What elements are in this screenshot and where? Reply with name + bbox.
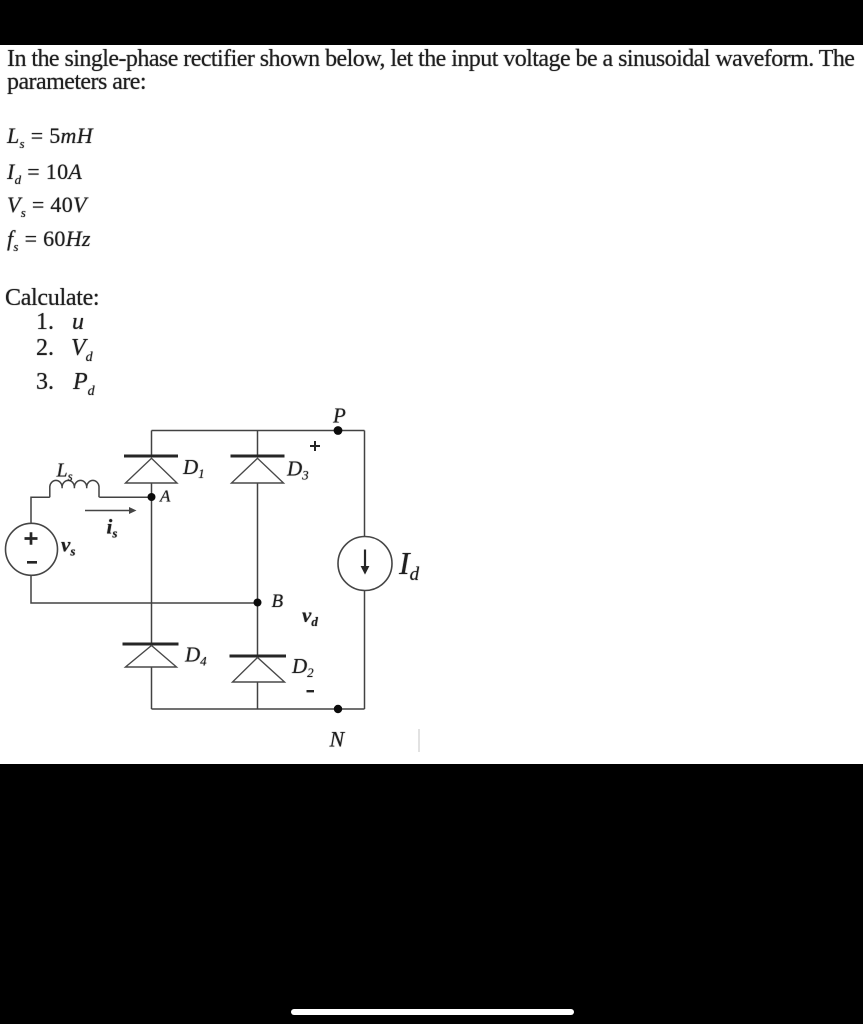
wire left leg: top bus to diode D1 — [151, 431, 153, 456]
home indicator bar — [291, 1009, 574, 1015]
svg-text:P: P — [332, 404, 346, 428]
label vs — [61, 533, 75, 559]
svg-text:D3: D3 — [286, 457, 309, 483]
top status black bar — [0, 0, 863, 45]
bottom letterbox black area — [0, 764, 863, 1024]
svg-text:Ls: Ls — [56, 460, 73, 484]
svg-text:B: B — [272, 591, 284, 612]
diode D2 — [230, 656, 287, 682]
wire source top lead up and over to inductor — [31, 497, 50, 522]
wire inductor to node A — [99, 496, 151, 498]
wire right branch lower (current source to N corner) — [364, 591, 366, 710]
label D1 — [182, 455, 205, 481]
label P — [332, 404, 346, 428]
label + of vd at node P — [310, 441, 320, 451]
node B junction dot — [254, 599, 262, 607]
diode D3 — [231, 456, 285, 483]
svg-text:vd: vd — [302, 603, 318, 629]
equation Vs = 40V — [7, 194, 87, 216]
wire source bottom lead down and right to node B — [31, 576, 258, 604]
label Ls — [56, 460, 73, 484]
node N junction dot — [334, 705, 342, 713]
svg-text:vs: vs — [61, 533, 75, 559]
label - of vd at node N — [307, 690, 315, 692]
inductor Ls coil — [50, 480, 99, 497]
label A — [159, 487, 171, 506]
label B — [272, 591, 284, 612]
wire middle leg: top bus to diode D3 — [257, 431, 259, 456]
svg-text:D4: D4 — [184, 643, 207, 669]
label vd — [302, 603, 318, 629]
wire top bus from D1/D3 leg to current-source branch — [152, 430, 365, 432]
label D2 — [291, 654, 314, 680]
Calculate heading — [5, 286, 99, 310]
list item 2: Vd — [36, 336, 93, 360]
problem statement paragraph — [7, 48, 859, 94]
arrow is (source current direction) — [85, 507, 137, 514]
wire middle leg: D3 to node B — [257, 483, 259, 603]
current source Id — [338, 537, 392, 591]
wire left leg: D4 to bottom bus — [151, 667, 153, 709]
faint text cursor mark — [418, 729, 420, 752]
source vs (ac voltage source circle) — [6, 523, 58, 575]
label D3 — [286, 457, 309, 483]
svg-text:N: N — [329, 727, 346, 752]
svg-text:is: is — [107, 515, 118, 541]
wire bottom bus from D4/D2 leg to current-source branch — [152, 708, 365, 710]
equation Id = 10A — [7, 161, 82, 183]
equation fs = 60Hz — [7, 228, 91, 250]
label Id — [398, 545, 420, 585]
diode D1 — [124, 456, 178, 483]
label D4 — [184, 643, 207, 669]
node A junction dot — [148, 493, 156, 501]
node P junction dot — [334, 426, 343, 435]
list item 1: u — [36, 310, 84, 334]
label is — [107, 515, 118, 541]
wire middle leg: node B to diode D2 — [257, 603, 259, 656]
circuit schematic — [0, 400, 480, 760]
diode D4 — [123, 644, 179, 667]
label N — [329, 727, 346, 752]
wire middle leg: D2 to bottom bus — [257, 682, 259, 709]
equation Ls = 5mH — [7, 125, 93, 147]
wire left leg: node A to diode D4 — [151, 497, 153, 643]
list item 3: Pd — [36, 370, 95, 394]
svg-text:Id: Id — [398, 545, 420, 585]
svg-text:D1: D1 — [182, 455, 205, 481]
wire left leg: D1 to node A — [151, 483, 153, 497]
svg-text:A: A — [159, 487, 171, 506]
wire right branch upper (P corner down to current source) — [364, 431, 366, 538]
svg-text:D2: D2 — [291, 654, 314, 680]
